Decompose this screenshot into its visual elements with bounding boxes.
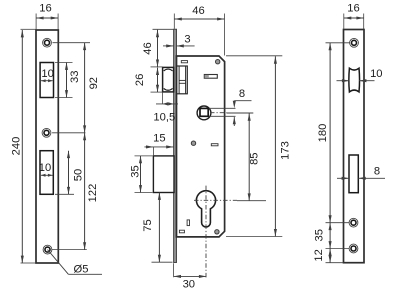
dim 10 latch opening — [337, 80, 350, 82]
svg-text:173: 173 — [280, 141, 292, 160]
faceplate latch cutout — [40, 63, 53, 98]
dim 46 vertical extension lines — [153, 28, 174, 30]
svg-text:3: 3 — [184, 34, 190, 46]
dim 16 right view extension lines — [343, 14, 345, 30]
svg-text:122: 122 — [87, 184, 99, 203]
follower centerline — [210, 112, 227, 114]
svg-text:Ø5: Ø5 — [74, 264, 89, 276]
dim 46 top width — [174, 18, 224, 20]
svg-text:75: 75 — [142, 219, 154, 231]
spindle square 8mm — [200, 108, 208, 116]
dim 173 body height — [274, 56, 276, 236]
svg-text:10: 10 — [41, 68, 53, 80]
dim 50 — [68, 151, 70, 195]
dim 16 left view extension lines — [35, 14, 37, 30]
svg-text:240: 240 — [11, 137, 23, 156]
svg-text:46: 46 — [192, 5, 204, 17]
diameter 5 leader — [48, 250, 69, 275]
dim 26 extension line — [151, 91, 164, 93]
svg-text:16: 16 — [39, 2, 51, 14]
rivet middle — [191, 141, 195, 145]
dim 35 right view — [329, 223, 331, 249]
svg-text:50: 50 — [73, 169, 85, 181]
faceplate deadbolt cutout — [40, 151, 53, 195]
dim 12 extension line — [326, 262, 344, 264]
latch bolt head — [163, 67, 174, 92]
dim 35 — [140, 156, 142, 193]
cylinder horizontal centerline — [194, 199, 237, 201]
dim 92 — [84, 43, 86, 133]
middle view faceplate bar (edge) — [174, 29, 177, 262]
svg-text:10,5: 10,5 — [153, 112, 175, 124]
svg-text:10: 10 — [370, 68, 382, 80]
dim 33 extension lines — [55, 62, 73, 64]
left view: lock faceplate front — [36, 30, 58, 263]
dim 75 — [158, 193, 160, 263]
dim 92 extension line — [53, 42, 91, 44]
slot top right with slider — [204, 75, 217, 79]
dim 50 extension line — [55, 193, 74, 195]
slot vertical lower — [187, 220, 189, 226]
latch bevel arc bottom — [164, 88, 173, 90]
euro cylinder hole — [196, 191, 215, 227]
svg-text:92: 92 — [88, 77, 100, 89]
faceplate middle screw hole — [42, 128, 51, 137]
dim 180 extension line — [326, 42, 350, 44]
strike plate lower screw hole 1 — [349, 218, 358, 227]
deadbolt opening — [349, 155, 358, 193]
svg-text:35: 35 — [314, 229, 326, 241]
dim 35 extension lines — [135, 155, 153, 157]
dim 240 extension lines — [21, 28, 36, 30]
dim 85 — [248, 113, 250, 200]
slot bottom left — [179, 230, 184, 233]
svg-text:180: 180 — [317, 124, 329, 143]
cylinder vertical centerline — [205, 186, 207, 278]
faceplate bottom screw hole — [43, 245, 52, 254]
svg-text:16: 16 — [347, 2, 359, 14]
svg-text:8: 8 — [239, 88, 245, 100]
rivet bottom right — [215, 230, 219, 234]
rivet top right — [216, 60, 220, 64]
dim 16 left view — [36, 17, 58, 19]
right view: strike plate — [344, 30, 365, 263]
dim 122 — [84, 133, 86, 250]
slot middle — [211, 144, 218, 146]
svg-text:26: 26 — [134, 74, 146, 86]
dim 122 extension lines — [52, 132, 85, 134]
dim 10,5 latch projection — [162, 93, 164, 105]
dim 240 — [21, 30, 23, 263]
dim 35 extension lines right view — [326, 222, 350, 224]
svg-text:30: 30 — [183, 278, 195, 290]
dim 75 extension line — [152, 261, 173, 263]
dim 46 top extension lines — [173, 14, 175, 29]
svg-text:10: 10 — [39, 162, 51, 174]
latch bevel arc top — [164, 69, 173, 71]
dim 8 deadbolt opening — [337, 177, 349, 179]
latch tail inside body — [177, 66, 188, 94]
dim 12 — [329, 249, 331, 263]
dim 180 — [329, 43, 331, 223]
svg-text:33: 33 — [69, 71, 81, 83]
latch opening (bobbin shape) — [349, 68, 360, 92]
svg-text:12: 12 — [313, 249, 325, 261]
dim 33 — [66, 63, 68, 98]
body top extension to 173 — [226, 55, 282, 57]
svg-text:85: 85 — [249, 152, 261, 164]
svg-text:15: 15 — [153, 133, 165, 145]
dim 16 right view — [344, 17, 364, 19]
dim 46 vertical — [157, 30, 159, 67]
strike plate lower screw hole 2 — [349, 244, 358, 253]
body bottom extension to 173 — [226, 236, 282, 238]
faceplate top screw hole — [43, 38, 52, 47]
dim 30 backset — [173, 263, 175, 277]
guide box lower left — [153, 156, 174, 193]
lock body outline — [177, 56, 225, 237]
svg-text:46: 46 — [142, 42, 154, 54]
strike plate top screw hole — [350, 38, 359, 47]
dim 26 latch height — [157, 68, 159, 93]
svg-text:35: 35 — [129, 165, 141, 177]
spindle follower circle — [197, 106, 211, 120]
slot top left — [181, 61, 187, 63]
svg-text:8: 8 — [374, 166, 380, 178]
